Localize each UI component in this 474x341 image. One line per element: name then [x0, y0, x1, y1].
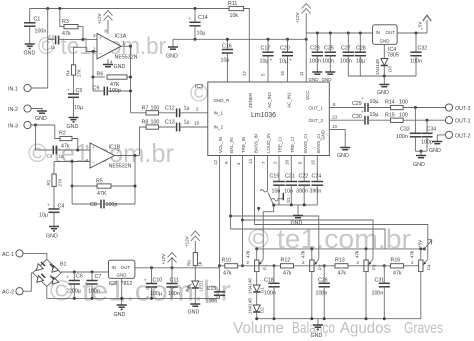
ground IN-2: [35, 111, 47, 122]
svg-text:Volume: Volume: [233, 320, 284, 337]
node C28 top: [359, 32, 362, 35]
svg-text:GND: GND: [46, 234, 58, 240]
svg-text:1µ: 1µ: [59, 154, 65, 159]
wire feedback left riser: [92, 52, 94, 92]
node C32 top: [415, 32, 418, 35]
wire IN-1 riser: [47, 9, 49, 89]
svg-text:NE5532N: NE5532N: [109, 164, 132, 170]
capacitor C26: [316, 264, 330, 318]
svg-text:47k: 47k: [223, 271, 232, 277]
capacitor C10: [144, 268, 162, 299]
wire IC2 gnd pin: [121, 278, 123, 304]
wire out caps gnd: [415, 150, 427, 152]
capacitor C14: [188, 9, 208, 40]
svg-text:10µ *: 10µ *: [260, 59, 272, 65]
svg-text:47k: 47k: [61, 144, 70, 150]
node D3 gnd: [383, 75, 386, 78]
svg-text:100n: 100n: [316, 291, 328, 297]
svg-text:11: 11: [299, 71, 304, 76]
capacitor C18: [264, 264, 280, 318]
potentiometer P2: [301, 249, 323, 319]
supply +12V main: [295, 4, 311, 34]
capacitor C7: [86, 272, 101, 298]
wire IN-3 down to C3: [36, 125, 53, 150]
svg-text:C16: C16: [222, 44, 232, 50]
wire pin4 TRE col: [236, 156, 244, 268]
capacitor C2: [48, 35, 83, 50]
svg-text:VCC: VCC: [305, 90, 310, 100]
svg-text:C5: C5: [76, 88, 83, 94]
wire feedback IC1B right riser: [134, 156, 136, 205]
svg-text:S1: S1: [286, 197, 291, 203]
svg-text:27K: 27K: [77, 69, 82, 77]
supply +12V led: [185, 231, 200, 253]
svg-text:C17: C17: [261, 46, 271, 52]
wire +in: [83, 38, 97, 40]
node C22 gnd: [303, 203, 306, 206]
svg-text:IN-1: IN-1: [8, 87, 18, 93]
node R5 right: [134, 185, 137, 188]
svg-text:R6: R6: [97, 72, 104, 78]
svg-text:R5: R5: [96, 179, 103, 185]
svg-text:C7: C7: [95, 274, 102, 280]
svg-text:IC1A: IC1A: [115, 34, 127, 40]
svg-text:P2: P2: [318, 264, 323, 270]
capacitor C1: [24, 9, 46, 44]
wire S1 common: [263, 206, 274, 212]
wire 7805 out: [397, 32, 427, 34]
svg-text:OUT: OUT: [121, 265, 131, 270]
svg-text:P1: P1: [263, 264, 268, 270]
node feedback R6: [92, 76, 95, 79]
svg-text:R10: R10: [222, 258, 232, 264]
wire loudness caps gnd rail: [274, 204, 318, 206]
svg-text:47K: 47K: [97, 191, 107, 197]
switch S1: [260, 190, 291, 207]
svg-text:AC_IN2: AC_IN2: [267, 92, 272, 108]
svg-text:*: *: [421, 27, 423, 32]
svg-text:NE5532N: NE5532N: [115, 55, 138, 61]
svg-text:C20: C20: [280, 46, 290, 52]
node C23 top: [316, 32, 319, 35]
wire vcc pin col: [305, 33, 307, 82]
svg-text:27K: 27K: [58, 178, 63, 186]
led LED1: [186, 280, 203, 304]
node C6 top: [73, 271, 76, 274]
svg-text:100n: 100n: [88, 288, 100, 294]
svg-text:47k: 47k: [301, 250, 306, 258]
capacitor C5: [67, 88, 83, 118]
node C7 top: [91, 271, 94, 274]
svg-text:R16: R16: [391, 258, 401, 264]
svg-text:C24: C24: [312, 174, 322, 180]
svg-text:LED1: LED1: [199, 280, 204, 292]
svg-text:GND: GND: [413, 162, 425, 168]
svg-text:+: +: [188, 16, 191, 21]
svg-text:B1: B1: [60, 262, 67, 268]
svg-text:15: 15: [311, 159, 316, 165]
diode D2: [248, 298, 265, 319]
potentiometer P3: [355, 249, 377, 319]
svg-text:+: +: [47, 203, 50, 208]
svg-text:100n: 100n: [264, 291, 276, 297]
svg-text:LOUD_IN: LOUD_IN: [266, 133, 271, 153]
svg-text:GND: GND: [114, 64, 126, 70]
capacitor C27: [340, 33, 354, 76]
svg-text:R3: R3: [62, 19, 69, 25]
ground bottom rail: [311, 319, 324, 339]
svg-text:+12V: +12V: [97, 13, 102, 24]
capacitor C33: [396, 108, 421, 152]
node IN-3 split: [34, 124, 37, 127]
node C21 gnd: [290, 203, 293, 206]
svg-text:100p: 100p: [421, 140, 433, 146]
svg-text:C30: C30: [352, 114, 362, 120]
supply +5V pots: [418, 240, 432, 249]
connector OUT-3: [445, 104, 470, 112]
node D2 bottom: [255, 317, 258, 320]
svg-text:P3: P3: [372, 264, 377, 270]
svg-text:GND: GND: [311, 333, 323, 339]
svg-text:10µ: 10µ: [197, 31, 206, 37]
svg-text:IC3: IC3: [195, 84, 203, 90]
node C16 top: [226, 38, 229, 41]
svg-text:100: 100: [151, 120, 160, 126]
svg-text:OUT-1: OUT-1: [455, 119, 471, 125]
svg-text:C31: C31: [375, 278, 385, 284]
svg-text:GND: GND: [35, 116, 47, 122]
capacitor C16: [221, 39, 234, 63]
capacitor C15: [206, 268, 226, 305]
node C26 bottom: [323, 317, 326, 320]
ground under C5: [67, 118, 79, 131]
resistor R15: [385, 113, 445, 123]
svg-text:C18: C18: [264, 278, 274, 284]
svg-text:+12V: +12V: [161, 254, 166, 265]
node R5 left: [71, 185, 74, 188]
svg-text:C28: C28: [356, 46, 366, 52]
svg-text:C14: C14: [198, 15, 208, 21]
svg-text:1N4148: 1N4148: [248, 278, 253, 294]
svg-text:C1: C1: [34, 17, 41, 23]
svg-text:R15: R15: [385, 113, 395, 119]
node C7 bottom: [91, 297, 94, 300]
resistor R7: [131, 106, 176, 116]
svg-text:C23: C23: [310, 46, 320, 52]
svg-text:R2: R2: [59, 131, 66, 137]
wire loudness rail: [231, 229, 385, 249]
svg-text:13: 13: [332, 115, 338, 120]
svg-text:R9: R9: [187, 260, 192, 266]
capacitor C17: [260, 39, 274, 82]
node C18 bottom: [273, 317, 276, 320]
svg-text:GND: GND: [380, 39, 391, 44]
svg-text:100n: 100n: [396, 134, 408, 140]
resistor R16: [364, 258, 419, 277]
svg-text:100: 100: [399, 113, 408, 119]
node P2 bottom: [310, 317, 313, 320]
svg-text:47k: 47k: [410, 250, 415, 258]
svg-text:100p: 100p: [109, 88, 121, 94]
wire bal rail to P2: [231, 216, 319, 259]
svg-text:100n: 100n: [372, 291, 384, 297]
ground LED1: [188, 304, 201, 316]
svg-text:R14: R14: [385, 100, 395, 106]
node IC2 gnd rail: [120, 297, 123, 300]
svg-text:GND: GND: [321, 129, 326, 140]
svg-text:1µ: 1µ: [184, 106, 190, 112]
node C17 top: [267, 38, 270, 41]
capacitor C6: [66, 272, 83, 298]
svg-text:10µ: 10µ: [370, 112, 379, 118]
connector AC-1: [2, 250, 47, 260]
svg-text:OUT: OUT: [386, 30, 396, 35]
resistor R5: [72, 179, 135, 198]
wire bridge minus: [46, 287, 48, 299]
svg-text:IN-2: IN-2: [8, 107, 18, 113]
svg-text:GND: GND: [322, 77, 333, 82]
svg-text:AC-2: AC-2: [2, 290, 14, 296]
svg-text:Agudos: Agudos: [340, 320, 391, 337]
capacitor C13: [165, 120, 208, 132]
node P3 bottom: [365, 317, 368, 320]
svg-text:Graves: Graves: [404, 320, 443, 337]
svg-text:10µ *: 10µ *: [279, 59, 291, 65]
svg-text:IN: IN: [112, 265, 117, 270]
node C11 top: [171, 266, 174, 269]
svg-text:390n: 390n: [296, 189, 308, 195]
svg-text:OUT_1: OUT_1: [309, 106, 324, 111]
svg-text:10µ: 10µ: [39, 213, 48, 219]
supply +12V psu out: [161, 253, 177, 268]
capacitor C23: [309, 33, 323, 72]
wire OUT_2 row: [329, 119, 364, 121]
resistor R9: [187, 253, 203, 281]
svg-text:16: 16: [280, 70, 285, 76]
node dot R3 col: [58, 7, 61, 10]
capacitor C22: [296, 156, 310, 205]
svg-text:17: 17: [242, 70, 247, 76]
svg-text:C9: C9: [93, 86, 100, 92]
svg-text:10µ: 10µ: [74, 105, 83, 111]
wire OUT_1 row: [329, 107, 364, 109]
svg-text:100p: 100p: [106, 202, 118, 208]
svg-text:+: +: [144, 278, 147, 283]
capacitor C34: [421, 120, 436, 151]
node IC1B out: [134, 154, 137, 157]
node P4 top rail: [419, 247, 422, 250]
svg-text:10k: 10k: [230, 13, 239, 19]
ground under C25: [322, 72, 336, 82]
svg-text:P4: P4: [427, 264, 432, 270]
wire pin7 LOUD col: [261, 156, 268, 192]
wire pin14 BASS col: [248, 156, 255, 225]
svg-text:OUT-2: OUT-2: [455, 133, 471, 139]
svg-text:1N4148: 1N4148: [375, 59, 380, 75]
svg-text:C25: C25: [324, 46, 334, 52]
wire pots top rail: [257, 248, 425, 250]
capacitor C9: [93, 86, 131, 96]
svg-text:+12V: +12V: [295, 12, 300, 23]
svg-text:7812: 7812: [121, 281, 133, 287]
svg-text:GND_R: GND_R: [214, 98, 231, 103]
node C31 bottom: [383, 317, 386, 320]
capacitor C11: [166, 268, 179, 299]
svg-text:+: +: [67, 275, 70, 280]
svg-text:GND: GND: [429, 148, 441, 154]
capacitor C30: [352, 109, 391, 125]
svg-text:R11: R11: [228, 1, 237, 7]
svg-text:1N4148: 1N4148: [248, 298, 253, 314]
svg-text:IN-3: IN-3: [8, 124, 18, 130]
node C9 right: [129, 90, 132, 93]
capacitor C29: [352, 96, 391, 112]
svg-text:BASS_CI: BASS_CI: [316, 134, 321, 153]
svg-text:100n: 100n: [309, 59, 321, 65]
capacitor C3: [47, 146, 91, 159]
svg-text:D2: D2: [260, 307, 265, 313]
svg-text:BAL_IN: BAL_IN: [229, 137, 234, 153]
svg-text:+: +: [99, 36, 102, 41]
svg-text:2200µ: 2200µ: [66, 288, 81, 294]
svg-text:C29: C29: [352, 101, 362, 107]
svg-text:C26: C26: [318, 278, 328, 284]
svg-text:Lm1036: Lm1036: [251, 112, 276, 119]
node out caps gnd: [420, 150, 423, 153]
svg-text:10µ: 10µ: [370, 99, 379, 105]
node P2 top: [310, 247, 313, 250]
node C27 top: [347, 32, 350, 35]
svg-text:47k: 47k: [338, 271, 347, 277]
diode D1: [248, 278, 265, 305]
svg-text:10µ: 10µ: [221, 58, 230, 64]
wire psu gnd rail: [348, 75, 416, 77]
svg-text:−: −: [99, 51, 102, 56]
resistor R12: [254, 258, 310, 277]
svg-text:C22: C22: [299, 174, 309, 180]
wire IC1A output: [121, 45, 131, 47]
svg-text:100: 100: [151, 106, 160, 112]
capacitor C24: [310, 156, 324, 205]
op-amp IC1A: [93, 29, 138, 65]
wire supply rail to 7805: [306, 32, 372, 34]
svg-text:GND: GND: [24, 51, 36, 57]
capacitor C25: [322, 33, 336, 72]
regulator IC4 7805: [373, 25, 399, 59]
svg-text:+: +: [361, 109, 364, 114]
ground loudness caps: [291, 205, 304, 227]
svg-text:C19: C19: [270, 174, 280, 180]
wire tre rail to P3: [243, 220, 374, 259]
ground psu rail: [377, 76, 389, 96]
resistor R13: [310, 258, 364, 277]
svg-text:TRE_CI: TRE_CI: [278, 137, 283, 153]
svg-text:19: 19: [194, 121, 200, 126]
svg-text:IC2: IC2: [109, 281, 117, 287]
node output col: [129, 45, 132, 48]
svg-text:100n: 100n: [322, 59, 334, 65]
svg-text:10n: 10n: [284, 189, 293, 195]
ground IC1A: [103, 59, 125, 70]
svg-text:GND: GND: [337, 153, 349, 159]
svg-text:47k: 47k: [355, 250, 360, 258]
svg-text:R8: R8: [142, 120, 149, 126]
node C14 bottom: [194, 38, 197, 41]
node +12 rail bias: [305, 38, 308, 41]
capacitor C4: [39, 203, 64, 227]
svg-text:R1: R1: [46, 179, 51, 185]
wire bass rail to P4: [255, 225, 428, 259]
svg-text:100n: 100n: [206, 299, 218, 305]
svg-text:C32: C32: [418, 46, 428, 52]
capacitor C19: [270, 156, 285, 205]
svg-text:D3: D3: [388, 66, 393, 72]
wire C16 pin col: [226, 54, 228, 82]
capacitor C21: [284, 156, 297, 205]
svg-text:100n: 100n: [168, 291, 180, 297]
wire -in IC1A: [87, 47, 97, 51]
node R3 to +in: [82, 38, 85, 41]
connector IN-3: [8, 121, 55, 129]
svg-text:TRE_CI: TRE_CI: [290, 137, 295, 153]
svg-text:GND: GND: [114, 312, 126, 318]
svg-text:+: +: [361, 96, 364, 101]
supply 5V out: [418, 15, 432, 33]
svg-text:© te1.com.br: © te1.com.br: [248, 224, 411, 254]
svg-text:GND: GND: [377, 90, 389, 96]
svg-text:GND: GND: [309, 77, 320, 82]
svg-text:TRE_IN: TRE_IN: [241, 137, 246, 153]
node P3 top: [365, 247, 368, 250]
diode D3: [375, 44, 393, 76]
wire IC1B output: [115, 155, 140, 157]
node -in feedback: [92, 50, 95, 53]
capacitor C31: [372, 264, 390, 318]
svg-text:+: +: [67, 88, 70, 93]
op-amp IC1B: [86, 143, 132, 170]
svg-text:GND: GND: [166, 54, 178, 60]
svg-text:10: 10: [332, 124, 338, 129]
ground IC3: [337, 148, 350, 160]
node dot C1 col: [46, 7, 49, 10]
svg-text:C2: C2: [49, 35, 55, 40]
svg-text:IN: IN: [376, 30, 381, 35]
svg-text:C27: C27: [341, 46, 351, 52]
svg-text:C13: C13: [165, 120, 175, 126]
svg-text:1µ: 1µ: [50, 45, 56, 50]
svg-text:OUT-3: OUT-3: [455, 106, 471, 112]
resistor R4: [66, 47, 87, 93]
wire feedback IC1B left riser: [71, 162, 73, 205]
node P1 top: [255, 247, 258, 250]
wire mid bias rail: [173, 38, 306, 40]
capacitor C28: [355, 33, 366, 76]
regulator IC2 7812: [109, 260, 135, 287]
resistor R1: [46, 162, 63, 209]
potentiometer P4: [410, 249, 432, 319]
svg-text:C10: C10: [153, 278, 163, 284]
svg-text:7805: 7805: [387, 53, 399, 59]
svg-text:−: −: [92, 160, 95, 165]
svg-text:GND: GND: [188, 310, 200, 316]
capacitor C12: [165, 106, 208, 118]
svg-text:47k: 47k: [246, 250, 251, 258]
svg-text:BASS_CI: BASS_CI: [303, 134, 308, 153]
svg-text:390n: 390n: [310, 189, 322, 195]
node -in IC1B loop: [71, 160, 74, 163]
svg-text:100: 100: [399, 100, 408, 106]
svg-text:R4: R4: [66, 70, 71, 76]
